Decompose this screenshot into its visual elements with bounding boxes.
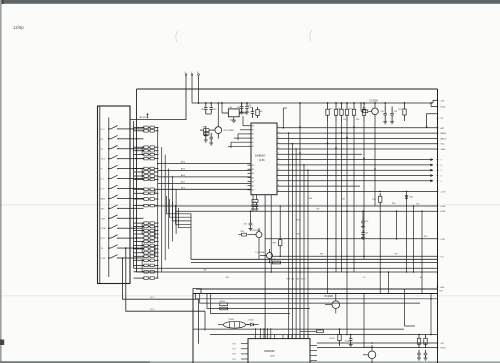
svg-text:C93: C93	[365, 221, 368, 223]
svg-text:TUNE: TUNE	[101, 228, 107, 230]
wire exit1 drop	[198, 299, 200, 344]
arrow on AV MODE wire	[147, 114, 149, 119]
svg-text:MEM: MEM	[101, 198, 106, 200]
capacitor CX2	[256, 203, 258, 205]
wire AB 3 to IC80	[158, 170, 251, 172]
bus y262.5	[191, 262, 438, 264]
svg-text:R90: R90	[329, 109, 332, 111]
bus y256.3 P-3	[273, 255, 438, 257]
svg-text:C89: C89	[381, 111, 384, 113]
svg-text:C85: C85	[248, 105, 251, 107]
IC80 left pin 12	[248, 185, 252, 187]
vertical x413	[413, 206, 415, 272]
resistor R95 on bus	[273, 261, 281, 264]
IC80 left pin 3	[248, 133, 252, 135]
matrix column bend 5	[179, 208, 192, 228]
wire S17	[317, 342, 438, 344]
IC30 top pin 2	[260, 335, 262, 339]
lower box notch	[193, 289, 201, 294]
IC80 right pin wire 2	[277, 132, 438, 134]
svg-text:AL: AL	[420, 276, 422, 279]
svg-text:AB 3: AB 3	[181, 168, 185, 171]
matrix column bend 3	[173, 202, 192, 221]
svg-text:4: 4	[278, 190, 279, 192]
vertical x364	[363, 122, 365, 260]
vertical x347 lower	[346, 272, 348, 294]
transistor Q2000 DC2000	[325, 294, 340, 314]
wire AB 0 to IC80	[158, 188, 251, 190]
matrix column bus 4	[168, 169, 170, 249]
resistor pair row 24	[134, 264, 159, 267]
wire switch row 10 to matrix	[130, 217, 144, 219]
wire AB 2 to IC80	[158, 176, 251, 178]
switch S1 PL-1	[101, 126, 130, 131]
resonator X2001	[218, 319, 250, 328]
svg-text:R96: R96	[373, 199, 376, 201]
resistor R96	[379, 193, 381, 196]
capacitor CX1	[252, 203, 254, 205]
capacitor C82b with ground	[205, 130, 207, 134]
IC30 top pin 13	[307, 335, 309, 339]
resistor pair row 5	[134, 153, 159, 156]
pull-up resistor R94 column	[352, 102, 355, 272]
svg-text:R2008: R2008	[220, 301, 225, 303]
switch S8 MEM	[101, 195, 130, 200]
svg-text:BAND: BAND	[441, 132, 447, 135]
IC30 left pin 1	[241, 343, 248, 345]
bottom page edge strip	[0, 361, 500, 363]
svg-text:W: W	[101, 169, 103, 171]
svg-text:R88: R88	[273, 243, 276, 245]
svg-text:R2021: R2021	[330, 338, 335, 340]
svg-text:AB 4: AB 4	[181, 161, 185, 164]
vertical x380	[379, 206, 381, 273]
ground under IC81	[233, 117, 235, 120]
supply stub T	[198, 76, 200, 90]
svg-text:C81: C81	[249, 107, 252, 109]
IC80 left pin 6	[248, 145, 252, 147]
resistor R87 at Q80 base	[363, 110, 368, 113]
svg-text:C88: C88	[342, 199, 345, 201]
corner bracket near border	[427, 114, 438, 127]
left edge dark blob	[0, 340, 4, 346]
wire switch row 8 to matrix	[130, 197, 144, 199]
scan fold line upper	[0, 204, 500, 206]
svg-text:DC2000: DC2000	[325, 296, 334, 298]
svg-text:P20: P20	[233, 344, 236, 346]
diode D2001	[247, 319, 259, 326]
wire AV MODE from supply to keyboard	[131, 89, 187, 120]
IC80 right pin wire 3	[277, 137, 438, 139]
wire switch row 12 to matrix	[130, 237, 144, 239]
matrix column bus 3	[164, 155, 166, 261]
matrix column bus 5	[172, 176, 174, 241]
lower nested bus 2	[200, 294, 420, 304]
resistor pair row 21	[134, 252, 159, 255]
resistor pair row 10	[134, 178, 159, 181]
svg-text:9: 9	[278, 163, 279, 165]
resistor pair row 16	[134, 233, 159, 236]
wire switch row 4 to matrix	[130, 158, 144, 160]
resistor pair row 26	[134, 277, 159, 280]
wire AB 4 to IC80	[158, 163, 251, 165]
vertical x422	[421, 211, 423, 272]
resistor R85a	[257, 107, 259, 110]
long vertical net x296	[295, 149, 297, 339]
svg-text:C80: C80	[237, 107, 240, 109]
IC80 left pin wires upper	[243, 125, 248, 127]
svg-text:KOM: KOM	[441, 206, 446, 208]
resistor R2008	[220, 303, 228, 306]
svg-text:C82: C82	[201, 109, 204, 111]
svg-text:DTC114EB: DTC114EB	[224, 130, 235, 132]
resistor pair row 1	[134, 126, 159, 129]
junction dots wire crossings right band	[327, 142, 329, 144]
right cluster resistor Ra	[418, 335, 420, 339]
transistor Q82 DC1648B	[248, 228, 263, 259]
IC30 top pin 10	[295, 335, 297, 339]
wire from matrix into lower left	[192, 328, 194, 330]
keyboard box outer frame	[98, 106, 131, 284]
resistor pair row 11	[134, 188, 159, 191]
svg-text:6: 6	[278, 147, 279, 149]
lower box left border	[192, 294, 194, 363]
svg-text:R93: R93	[356, 119, 359, 121]
matrix column bend 2	[170, 199, 192, 217]
ladder rung verticals	[141, 147, 143, 154]
junctions bottom wires	[371, 342, 373, 344]
lower nested bus 4	[211, 294, 291, 314]
matrix column bend 4	[176, 205, 192, 224]
capacitor C93	[362, 218, 364, 222]
svg-text:SAB3035: SAB3035	[264, 350, 275, 353]
svg-text:X2001: X2001	[229, 319, 234, 321]
vertical x388 lower	[388, 272, 390, 294]
svg-text:D80: D80	[410, 197, 413, 199]
resistor pair row 20	[134, 248, 159, 251]
matrix column bus 2	[161, 147, 163, 272]
lower long bus y334.5	[210, 334, 438, 336]
resistor pair row 4	[134, 149, 159, 152]
capacitor C81	[246, 103, 248, 107]
capacitor C89	[384, 107, 386, 114]
IC30 left pin 3	[241, 353, 248, 355]
vertical IC bottom x265	[264, 195, 266, 339]
resistor pair row 27	[134, 198, 159, 201]
svg-text:8: 8	[278, 158, 279, 160]
resistor R2009	[220, 307, 228, 310]
top page edge strip	[0, 0, 500, 4]
bus y238.8 V-SL	[265, 238, 438, 240]
wire switch row 1 to matrix	[130, 128, 144, 130]
svg-text:1: 1	[278, 174, 279, 176]
pull-up resistor R90 column	[326, 102, 329, 272]
IC80 right pin wire 11	[277, 179, 434, 182]
svg-text:AB 1: AB 1	[181, 181, 185, 184]
long vertical net x300	[299, 103, 301, 339]
resistor R2030 on wire	[317, 330, 324, 333]
regulator IC81	[228, 109, 239, 117]
svg-text:C94: C94	[365, 233, 368, 235]
diode D80	[406, 191, 408, 272]
bus y272	[137, 271, 438, 273]
IC30 right pin 2	[310, 350, 317, 352]
wire switch row 5 to matrix	[130, 168, 144, 170]
resistor R92	[404, 103, 406, 109]
svg-text:DA800O: DA800O	[255, 154, 265, 158]
IC30 top pin extra stubs	[255, 329, 257, 334]
svg-text:P/N-2: P/N-2	[441, 348, 447, 350]
svg-text:R98: R98	[392, 203, 395, 205]
junction dots on buses	[299, 271, 301, 273]
lower box right border	[437, 289, 439, 363]
IC80 right pin wire 10	[277, 174, 434, 177]
long vertical net x292	[291, 144, 293, 339]
svg-text:IC30: IC30	[270, 356, 275, 358]
svg-text:R95: R95	[273, 259, 276, 261]
transistor Q81 DTC114EB	[215, 127, 222, 134]
vertical x330 lower	[327, 272, 329, 294]
IC80 right pin wire 7	[277, 158, 434, 161]
IC30 top pin 12	[303, 335, 305, 339]
svg-text:R94: R94	[320, 254, 323, 256]
IC30 top pin 7	[282, 335, 284, 339]
IC80 left pin 9	[248, 172, 252, 174]
resistor pair row 8	[134, 171, 159, 174]
svg-text:R85: R85	[259, 111, 262, 113]
svg-text:IC 80: IC 80	[259, 160, 265, 162]
keyboard common bus	[108, 118, 110, 278]
resistor R82	[204, 132, 210, 135]
resistor pair row 25	[134, 271, 159, 274]
IC U80 DA800O body	[251, 123, 277, 195]
svg-text:R99: R99	[424, 236, 427, 238]
transistor Q83 DC1648B	[256, 249, 273, 263]
svg-text:POW: POW	[101, 258, 106, 260]
svg-text:C97: C97	[416, 204, 419, 206]
vertical x380 into lower box	[379, 272, 381, 294]
main schematic bottom border	[196, 288, 438, 290]
vertical x422 into lower box	[421, 272, 423, 294]
IC30 top pin 8	[287, 335, 289, 339]
wire y331 lower	[300, 330, 317, 332]
svg-text:C2022: C2022	[345, 341, 350, 343]
resistor pair row 18	[134, 240, 159, 243]
IC30 top pin 3	[263, 335, 265, 339]
resistor pair row 9	[134, 175, 159, 178]
IC80 right pin wire 6	[277, 153, 362, 155]
svg-text:2: 2	[278, 179, 279, 181]
IC81 output to rail	[239, 112, 242, 114]
svg-text:P23: P23	[233, 359, 236, 361]
resistor R2021	[339, 329, 341, 334]
wire AB 1 to IC80	[158, 182, 251, 184]
lower long bus y329	[193, 328, 404, 330]
svg-text:DC1648B: DC1648B	[256, 252, 265, 254]
svg-text:H ML: H ML	[441, 107, 447, 109]
svg-text:R-1: R-1	[101, 179, 104, 181]
wire switch row 6 to matrix	[130, 178, 144, 180]
IC30 top pin 6	[274, 335, 276, 339]
IC30 top pin 5	[270, 335, 272, 339]
IC30 left pin 4	[241, 358, 248, 360]
faint scan arc left	[176, 31, 178, 42]
IC80 left pin 11	[248, 181, 252, 183]
svg-text:ABC3: ABC3	[441, 137, 447, 140]
svg-text:12/9p: 12/9p	[13, 25, 24, 30]
svg-text:3: 3	[278, 184, 279, 186]
svg-text:TR-4: TR-4	[101, 159, 105, 161]
switch S5 W	[101, 165, 130, 170]
main schematic right border	[437, 89, 439, 289]
matrix column bus 6	[175, 189, 177, 234]
switch S12 V-SY	[101, 235, 130, 240]
bus ECM y211	[176, 210, 437, 212]
resistor pair row 22	[134, 255, 159, 258]
12V entry wire	[433, 99, 438, 101]
vertical x364 lower drop	[363, 294, 365, 348]
svg-text:D2001: D2001	[249, 319, 254, 321]
resistor pair row 2	[134, 130, 159, 133]
svg-text:C87: C87	[343, 119, 346, 121]
svg-text:SEC: SEC	[101, 208, 106, 210]
vertical x347 in lower box	[346, 294, 348, 335]
IC80 right pin wire 5	[277, 148, 438, 150]
lower nested bus 3	[207, 294, 310, 309]
svg-text:R97: R97	[297, 220, 300, 222]
IC80 left pin 8	[248, 168, 252, 170]
resistor pair row 15	[134, 229, 159, 232]
capacitor C2022	[350, 335, 352, 339]
capacitor C86	[250, 211, 252, 219]
svg-text:12V: 12V	[441, 100, 445, 102]
svg-text:R92: R92	[349, 109, 352, 111]
svg-text:SDA: SDA	[441, 148, 446, 151]
switch S14 POW	[101, 255, 130, 260]
vertical x431 lower	[430, 294, 432, 335]
switch S6 R-1	[101, 175, 130, 180]
svg-text:1-OS: 1-OS	[441, 191, 446, 193]
IC80 right pin wire 9	[277, 169, 434, 172]
wire switch row 2 to matrix	[130, 138, 144, 140]
capacitor C83	[210, 103, 212, 108]
vertical IC bottom x271	[270, 195, 272, 272]
svg-text:2: 2	[278, 126, 279, 128]
svg-text:7: 7	[278, 153, 279, 155]
wire switch row 7 to matrix	[130, 187, 144, 189]
wire switch row 14 to matrix	[130, 257, 144, 259]
pull-up resistor R91 column	[334, 102, 337, 272]
crystal X80	[252, 195, 258, 203]
IC80 left pin 1	[248, 125, 252, 127]
capacitor C85	[252, 107, 254, 112]
svg-text:R91: R91	[338, 109, 341, 111]
wire switch row 13 to matrix	[130, 247, 144, 249]
matrix column bend 1	[167, 196, 192, 214]
resistor R83	[204, 129, 210, 132]
IC30 top pin 4	[266, 335, 268, 339]
bus line B	[136, 89, 138, 272]
vertical to lower rectangle	[190, 214, 192, 259]
resistor pair row 3	[134, 146, 159, 149]
IC30 right pin 1	[310, 344, 317, 346]
pull-up resistor R93 column	[345, 102, 348, 272]
resistor R88	[279, 206, 281, 237]
IC80 left pin 5	[248, 141, 252, 143]
svg-text:ECM: ECM	[441, 211, 446, 213]
IC30 right pin 4	[310, 360, 317, 362]
resistor pair row 13	[134, 222, 159, 225]
bus y268.2	[134, 267, 438, 269]
svg-text:DC3000: DC3000	[370, 100, 379, 102]
capacitor C80	[241, 103, 243, 107]
switch S10 TU/B	[101, 215, 130, 220]
keyboard bottom exit wire 1	[123, 258, 199, 299]
bus KOM y206	[155, 205, 438, 207]
svg-text:C96: C96	[316, 209, 319, 211]
supply rail 12V	[192, 102, 433, 104]
keyboard bottom exit wire 2	[126, 248, 205, 311]
IC80 left pin 13	[248, 189, 252, 191]
right cluster caps	[418, 350, 420, 353]
supply stub B+	[185, 76, 187, 90]
transistor Q2300 DC2300	[363, 345, 376, 363]
resistor pair row 14	[134, 225, 159, 228]
svg-text:AB 2: AB 2	[181, 174, 185, 177]
H ML entry wire	[431, 106, 438, 108]
box top y259.3	[191, 258, 438, 260]
long vertical net x304	[303, 165, 305, 339]
supply stub A	[191, 76, 193, 90]
IC80 left pin 7	[248, 164, 252, 166]
IC80 right pin wire 12	[277, 185, 360, 187]
svg-text:C95: C95	[297, 234, 300, 236]
svg-text:E06: E06	[440, 291, 443, 293]
IC80 right pin wire 13	[277, 190, 438, 192]
left page edge strip	[0, 0, 2, 363]
IC30 top pin 1	[255, 335, 257, 339]
svg-text:AB 0: AB 0	[181, 187, 185, 190]
wire exit2 drop	[204, 311, 206, 330]
vertical x396	[396, 211, 398, 239]
wire switch row 9 to matrix	[130, 207, 144, 209]
resistor pair row 12	[134, 192, 159, 195]
resistor pair row 6	[134, 157, 159, 160]
wire switch row 3 to matrix	[130, 148, 144, 150]
IC30 top pin 9	[291, 335, 293, 339]
capacitor C83b with ground	[210, 133, 212, 137]
switch S11 TUNE	[101, 225, 130, 230]
svg-text:P22: P22	[233, 354, 236, 356]
switch S2 RC	[101, 135, 130, 140]
main schematic top border	[137, 88, 438, 90]
svg-text:4: 4	[278, 137, 279, 139]
svg-text:R92: R92	[399, 109, 402, 111]
IC80 left pin 2	[248, 129, 252, 131]
capacitor C82	[205, 103, 207, 108]
IC80 left pin 10	[248, 177, 252, 179]
keyboard box inner left line	[99, 106, 101, 284]
svg-text:PL-1: PL-1	[101, 129, 105, 131]
svg-text:5: 5	[278, 142, 279, 144]
IC80 right pin wire 1	[277, 127, 438, 129]
svg-text:P21: P21	[233, 349, 236, 351]
svg-text:C90: C90	[394, 111, 397, 113]
svg-text:C83: C83	[213, 109, 216, 111]
svg-text:R86: R86	[241, 231, 244, 233]
lower box top border	[193, 293, 438, 295]
wire P/N-2	[317, 347, 438, 349]
